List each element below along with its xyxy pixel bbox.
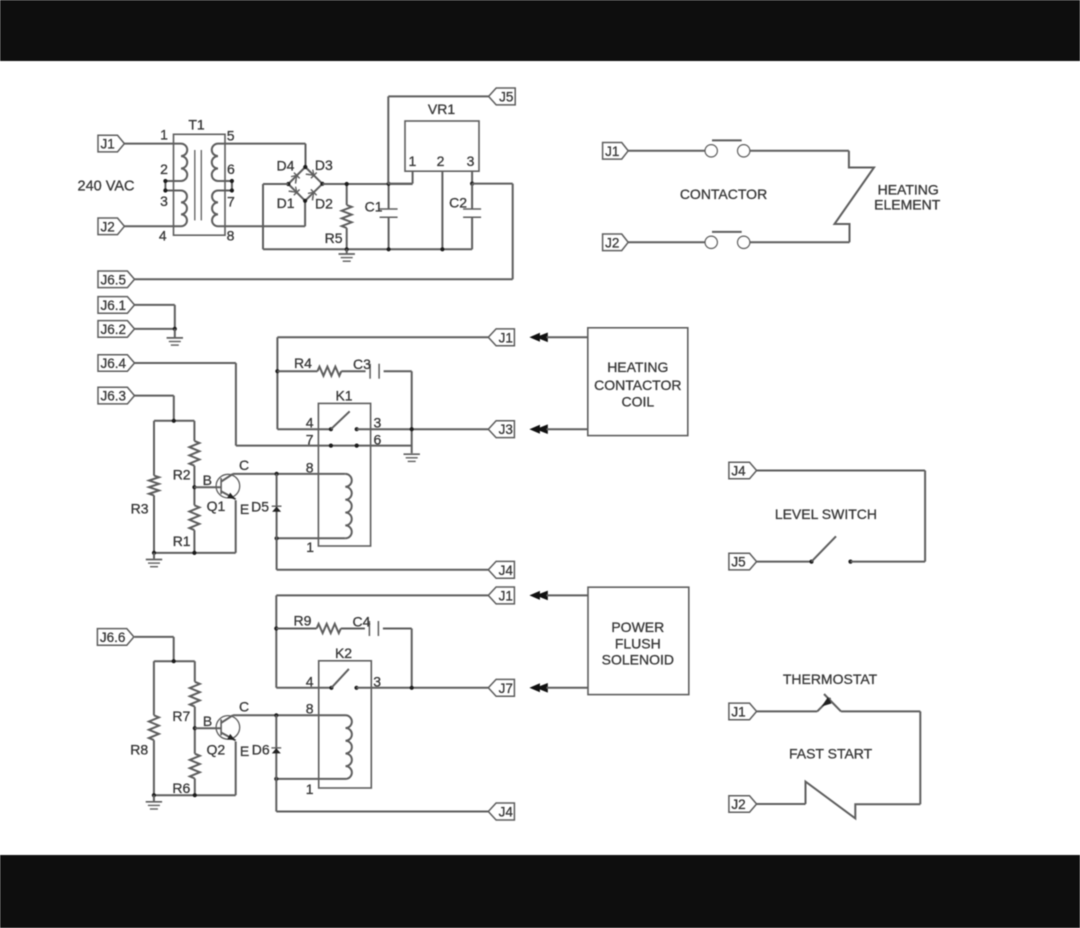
- svg-text:6: 6: [374, 431, 382, 447]
- svg-text:D2: D2: [315, 196, 333, 212]
- svg-text:C4: C4: [353, 614, 371, 630]
- svg-text:T1: T1: [188, 117, 205, 133]
- svg-text:K1: K1: [335, 387, 352, 403]
- svg-text:R1: R1: [173, 533, 191, 549]
- svg-text:B: B: [203, 472, 212, 488]
- svg-text:5: 5: [227, 128, 235, 144]
- svg-text:2: 2: [437, 153, 445, 169]
- svg-text:B: B: [203, 713, 212, 729]
- svg-text:J6.3: J6.3: [101, 389, 127, 404]
- svg-text:HEATING: HEATING: [878, 182, 939, 198]
- svg-text:J1: J1: [101, 137, 115, 152]
- svg-text:6: 6: [227, 161, 235, 177]
- svg-text:J5: J5: [731, 555, 745, 570]
- svg-text:VR1: VR1: [428, 101, 455, 117]
- svg-text:D5: D5: [251, 499, 269, 515]
- svg-text:SOLENOID: SOLENOID: [602, 651, 674, 667]
- svg-text:J3: J3: [499, 422, 513, 437]
- svg-text:J7: J7: [499, 681, 513, 696]
- svg-text:C: C: [239, 699, 249, 715]
- svg-text:3: 3: [374, 415, 382, 431]
- svg-text:1: 1: [306, 539, 314, 555]
- svg-text:ELEMENT: ELEMENT: [874, 197, 941, 213]
- svg-text:8: 8: [227, 228, 235, 244]
- svg-text:J1: J1: [605, 144, 619, 159]
- svg-text:LEVEL SWITCH: LEVEL SWITCH: [775, 506, 877, 522]
- svg-text:D6: D6: [252, 742, 270, 758]
- svg-text:C2: C2: [449, 195, 467, 211]
- svg-text:C: C: [239, 457, 249, 473]
- svg-text:8: 8: [306, 700, 314, 716]
- svg-text:R7: R7: [172, 708, 190, 724]
- svg-text:J4: J4: [731, 464, 746, 479]
- svg-text:240 VAC: 240 VAC: [78, 179, 135, 195]
- svg-text:R8: R8: [130, 742, 148, 758]
- svg-text:D1: D1: [277, 195, 295, 211]
- svg-text:J1: J1: [499, 330, 513, 345]
- svg-text:3: 3: [467, 153, 475, 169]
- svg-text:R6: R6: [172, 780, 190, 796]
- svg-text:J6.4: J6.4: [101, 356, 127, 371]
- svg-text:J2: J2: [605, 235, 619, 250]
- svg-text:CONTACTOR: CONTACTOR: [680, 186, 767, 202]
- svg-text:D3: D3: [315, 157, 333, 173]
- svg-text:Q1: Q1: [207, 498, 226, 514]
- svg-text:J1: J1: [731, 704, 745, 719]
- svg-text:3: 3: [160, 193, 168, 209]
- svg-text:R5: R5: [325, 230, 343, 246]
- svg-text:4: 4: [306, 673, 314, 689]
- svg-text:J4: J4: [499, 563, 514, 578]
- svg-text:J2: J2: [101, 219, 115, 234]
- svg-text:J6.2: J6.2: [101, 322, 127, 337]
- svg-text:2: 2: [160, 161, 168, 177]
- svg-text:POWER: POWER: [611, 619, 664, 635]
- svg-text:D4: D4: [277, 157, 295, 173]
- svg-text:1: 1: [409, 153, 417, 169]
- svg-text:HEATING: HEATING: [607, 359, 668, 375]
- svg-text:E: E: [240, 743, 249, 759]
- svg-text:C3: C3: [353, 356, 371, 372]
- svg-text:R3: R3: [131, 501, 149, 517]
- svg-text:C1: C1: [365, 199, 383, 215]
- svg-text:J2: J2: [731, 797, 745, 812]
- svg-text:3: 3: [373, 673, 381, 689]
- svg-text:J6.5: J6.5: [101, 272, 127, 287]
- svg-text:E: E: [240, 501, 249, 517]
- svg-text:7: 7: [227, 194, 235, 210]
- svg-text:J1: J1: [499, 588, 513, 603]
- svg-text:J6.6: J6.6: [100, 630, 126, 645]
- svg-text:J5: J5: [499, 89, 513, 104]
- svg-text:J6.1: J6.1: [101, 298, 127, 313]
- svg-text:R4: R4: [294, 355, 312, 371]
- svg-text:4: 4: [159, 228, 167, 244]
- svg-text:CONTACTOR: CONTACTOR: [594, 377, 681, 393]
- svg-text:FLUSH: FLUSH: [615, 636, 661, 652]
- svg-text:COIL: COIL: [621, 394, 654, 410]
- svg-text:FAST START: FAST START: [789, 746, 873, 762]
- svg-text:K2: K2: [335, 645, 352, 661]
- svg-text:Q2: Q2: [206, 742, 225, 758]
- svg-text:R9: R9: [294, 613, 312, 629]
- svg-text:4: 4: [306, 415, 314, 431]
- svg-text:8: 8: [306, 459, 314, 475]
- svg-text:1: 1: [306, 781, 314, 797]
- svg-text:7: 7: [306, 431, 314, 447]
- svg-text:THERMOSTAT: THERMOSTAT: [783, 671, 878, 687]
- svg-text:1: 1: [160, 127, 168, 143]
- svg-text:R2: R2: [173, 466, 191, 482]
- svg-text:J4: J4: [499, 805, 514, 820]
